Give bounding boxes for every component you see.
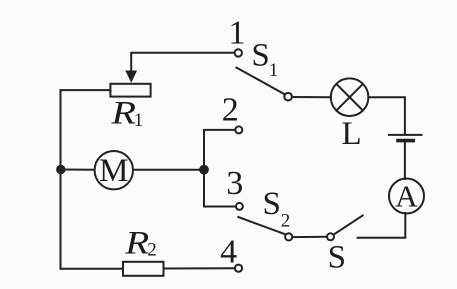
svg-text:2: 2: [147, 240, 157, 261]
terminal 2: [235, 126, 242, 133]
svg-text:2: 2: [281, 210, 291, 231]
svg-text:4: 4: [220, 234, 237, 271]
wire: junction up to terminal 2: [204, 130, 235, 170]
wire: S1 to lamp: [292, 96, 331, 98]
battery long plate: [389, 134, 422, 136]
terminal 1: [235, 49, 242, 56]
switch S pivot contact: [327, 233, 334, 240]
wire top: terminal 1 to R1 wiper: [131, 53, 234, 73]
wire: bottom rail to R2: [61, 268, 124, 270]
svg-text:1: 1: [134, 110, 144, 131]
rheostat R1 wiper arrow: [125, 71, 137, 83]
resistor R2: [123, 262, 164, 276]
wire: S2 contact to S pivot: [292, 236, 327, 238]
switch S1 blade: [237, 68, 285, 95]
terminal 4: [235, 265, 242, 272]
svg-text:3: 3: [226, 165, 243, 202]
wire: ammeter to switch S fixed contact: [358, 213, 406, 238]
svg-text:1: 1: [269, 60, 279, 81]
svg-text:L: L: [342, 116, 362, 152]
svg-text:R: R: [124, 225, 149, 261]
svg-text:1: 1: [229, 15, 246, 52]
ammeter A circle: [389, 179, 424, 214]
svg-text:R: R: [110, 96, 136, 132]
wire: lamp to battery: [368, 97, 405, 134]
wire: battery to ammeter: [404, 143, 406, 180]
svg-text:S: S: [328, 239, 346, 275]
switch S2 blade: [238, 217, 285, 234]
svg-text:M: M: [99, 153, 128, 189]
wire: R2 to terminal 4: [164, 267, 235, 269]
lamp L circle: [331, 78, 369, 116]
switch S1 contact: [284, 93, 292, 101]
wire: left rail vertical: [60, 90, 62, 269]
switch S blade: [334, 216, 363, 235]
terminal 3: [236, 203, 243, 210]
svg-text:2: 2: [222, 92, 239, 129]
wire: junction down to terminal 3: [204, 170, 236, 207]
lamp L cross stroke 2: [336, 84, 362, 110]
junction dot left rail: [56, 165, 65, 174]
junction dot node 2-3: [199, 165, 209, 175]
wire: R1 left to left rail corner: [61, 89, 111, 91]
svg-text:S: S: [251, 38, 269, 74]
rheostat R1 body: [110, 84, 150, 97]
switch S2 contact: [285, 233, 292, 240]
wire: left rail to motor: [61, 169, 95, 171]
svg-text:A: A: [395, 179, 418, 214]
battery short plate: [398, 139, 413, 143]
lamp L cross stroke 1: [336, 84, 362, 110]
wire: motor to right junction: [133, 169, 204, 171]
svg-text:S: S: [263, 186, 281, 222]
motor M: [95, 151, 133, 189]
